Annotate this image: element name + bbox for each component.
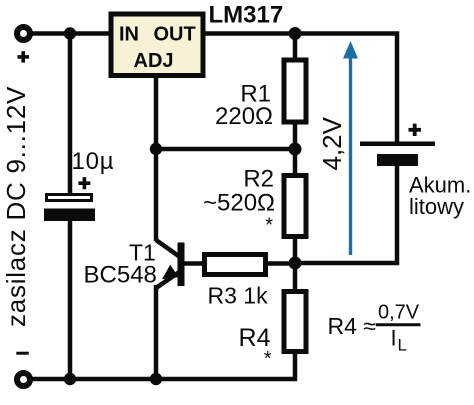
resistor R2 body [284, 176, 306, 237]
wire node B to battery minus [295, 162, 397, 263]
svg-text:10µ: 10µ [72, 148, 115, 175]
svg-text:LM317: LM317 [209, 2, 284, 29]
annotation arrow 4.2V [317, 41, 358, 255]
wire top rail right (LM317 OUT to battery corner) [204, 34, 397, 144]
wire bottom rail [30, 377, 297, 382]
wire ADJ to divider [156, 147, 295, 152]
svg-text:*: * [265, 215, 273, 237]
resistor R4 body [284, 292, 306, 352]
node junction R1 top [289, 27, 302, 40]
wire base to R3 [183, 261, 204, 266]
formula R4 = 0.7V / IL [328, 302, 421, 355]
wire R1 top branch [293, 31, 298, 60]
svg-text:220Ω: 220Ω [215, 103, 273, 130]
wire top rail left (input + to LM317 IN) [30, 31, 110, 36]
wire emitter drop [154, 285, 159, 379]
transistor Q1 T1 BC548 [156, 240, 185, 288]
node junction B (R2/R3/R4/battery) [289, 257, 302, 270]
svg-text:BC548: BC548 [84, 262, 157, 289]
wire R2 bottom [293, 236, 298, 292]
wire R3 to node B [266, 261, 295, 266]
svg-text:L: L [398, 336, 407, 355]
svg-text:I: I [391, 326, 397, 351]
svg-text:0,7V: 0,7V [378, 302, 420, 324]
capacitor C1 10u [44, 148, 114, 221]
terminal plus input [17, 27, 30, 63]
wire ADJ drop [154, 77, 159, 241]
resistor R3 body [205, 255, 266, 275]
svg-text:R3 1k: R3 1k [208, 283, 269, 309]
svg-text:R4 ≈: R4 ≈ [328, 313, 376, 339]
wire capacitor branch lower [68, 218, 73, 379]
svg-text:*: * [264, 348, 272, 370]
node junction cap top [64, 27, 76, 39]
terminal minus input [16, 353, 30, 386]
wire R4 bottom [293, 352, 298, 381]
node junction emitter [150, 373, 162, 385]
svg-text:OUT: OUT [154, 24, 196, 46]
svg-text:litowy: litowy [409, 194, 464, 219]
svg-text:R2: R2 [243, 166, 274, 193]
node junction cap bottom [64, 373, 76, 385]
node junction ADJ [150, 143, 162, 155]
resistor R1 body [284, 60, 306, 122]
svg-text:ADJ: ADJ [134, 50, 174, 72]
wire R1 bottom to R2 top [293, 122, 298, 176]
battery B1 lithium [360, 124, 435, 166]
svg-text:4,2V: 4,2V [317, 116, 347, 170]
svg-text:~520Ω: ~520Ω [203, 190, 275, 217]
svg-text:IN: IN [119, 24, 139, 46]
wire capacitor branch upper [68, 34, 73, 197]
svg-text:zasilacz DC 9...12V: zasilacz DC 9...12V [1, 86, 31, 327]
node junction R1/R2 [289, 143, 302, 156]
regulator U1 LM317 body [111, 14, 203, 76]
